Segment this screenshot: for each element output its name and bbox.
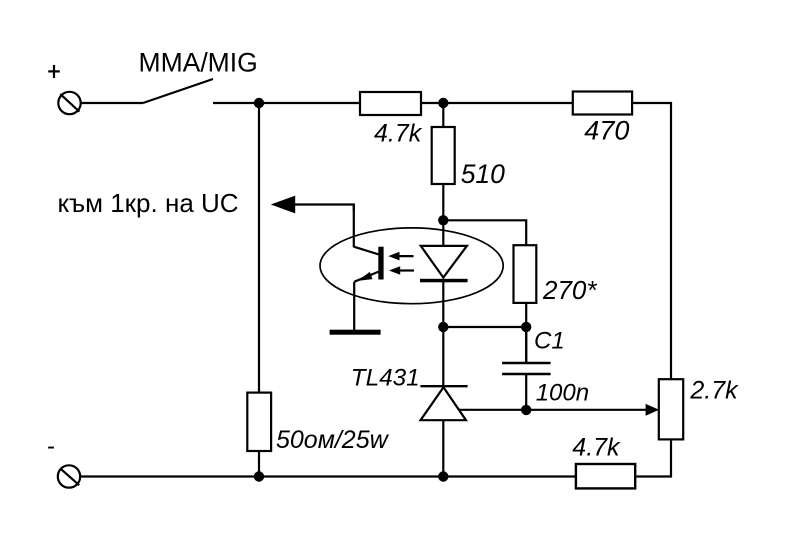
svg-text:4.7k: 4.7k [572, 434, 621, 462]
TL431 shunt regulator [420, 386, 467, 476]
node cap bottom on ref wire [521, 405, 531, 415]
wire 510 to LED anode [442, 184, 444, 246]
svg-text:към 1кр. на UC: към 1кр. на UC [58, 188, 239, 218]
node 270* bottom [521, 322, 531, 332]
ground [330, 330, 381, 335]
svg-text:C1: C1 [534, 328, 565, 355]
capacitor C1 plates [502, 327, 550, 410]
svg-text:4.7k: 4.7k [374, 120, 423, 148]
resistor R 510 [432, 127, 455, 184]
wire pot bottom to resistor 4.7k bottom [636, 439, 671, 476]
svg-text:50ом/25w: 50ом/25w [276, 426, 390, 454]
node top-middle junction [438, 98, 448, 108]
svg-text:470: 470 [584, 116, 629, 146]
terminal plus symbol [58, 92, 80, 114]
label + [48, 65, 60, 78]
wire bottom rail [81, 475, 576, 477]
resistor R 470 [573, 92, 632, 115]
wire 470 to right rail corner [632, 103, 671, 379]
svg-text:MMA/MIG: MMA/MIG [139, 48, 258, 78]
resistor R 4.7k bottom [576, 464, 635, 488]
node TL431 anode junction [438, 471, 448, 481]
light arrow upper [388, 252, 413, 261]
optocoupler LED [420, 246, 468, 327]
wire left rail vertical [258, 103, 260, 393]
switch MMA/MIG blade [143, 79, 213, 103]
node top-left junction [254, 98, 264, 108]
svg-text:100n: 100n [536, 380, 589, 407]
optocoupler phototransistor [354, 205, 384, 331]
light arrow lower [389, 266, 414, 275]
svg-text:510: 510 [461, 159, 505, 189]
terminal minus symbol [58, 465, 80, 487]
wire switch to resistor 4.7k top [213, 102, 360, 104]
TL431 reference wire to potentiometer wiper [459, 404, 659, 416]
wire node to resistor 270* top [443, 220, 526, 245]
resistor R 270* [514, 245, 537, 303]
resistor R 50om/25w [247, 393, 271, 451]
optocoupler body ellipse [320, 228, 503, 304]
wire 50om resistor to bottom rail [258, 451, 260, 477]
svg-text:TL431: TL431 [351, 364, 420, 391]
wire TL431 column [442, 327, 444, 385]
label - [48, 447, 54, 449]
svg-text:2.7k: 2.7k [689, 376, 739, 404]
resistor R 4.7k top [360, 92, 421, 115]
arrow to UC [271, 196, 354, 214]
svg-text:270*: 270* [542, 275, 597, 305]
wire node to resistor 510 [442, 103, 444, 127]
wire resistor 4.7k to resistor 470 [421, 102, 573, 104]
node LED cathode bottom [438, 322, 448, 332]
wire terminal+ to switch [81, 102, 143, 104]
node above optocoupler LED [438, 215, 448, 225]
potentiometer R 2.7k [659, 379, 683, 439]
wire 270* bottom to node [525, 303, 527, 362]
node bottom-left junction [254, 471, 264, 481]
wire LED bottom to 270* bottom [443, 326, 526, 328]
